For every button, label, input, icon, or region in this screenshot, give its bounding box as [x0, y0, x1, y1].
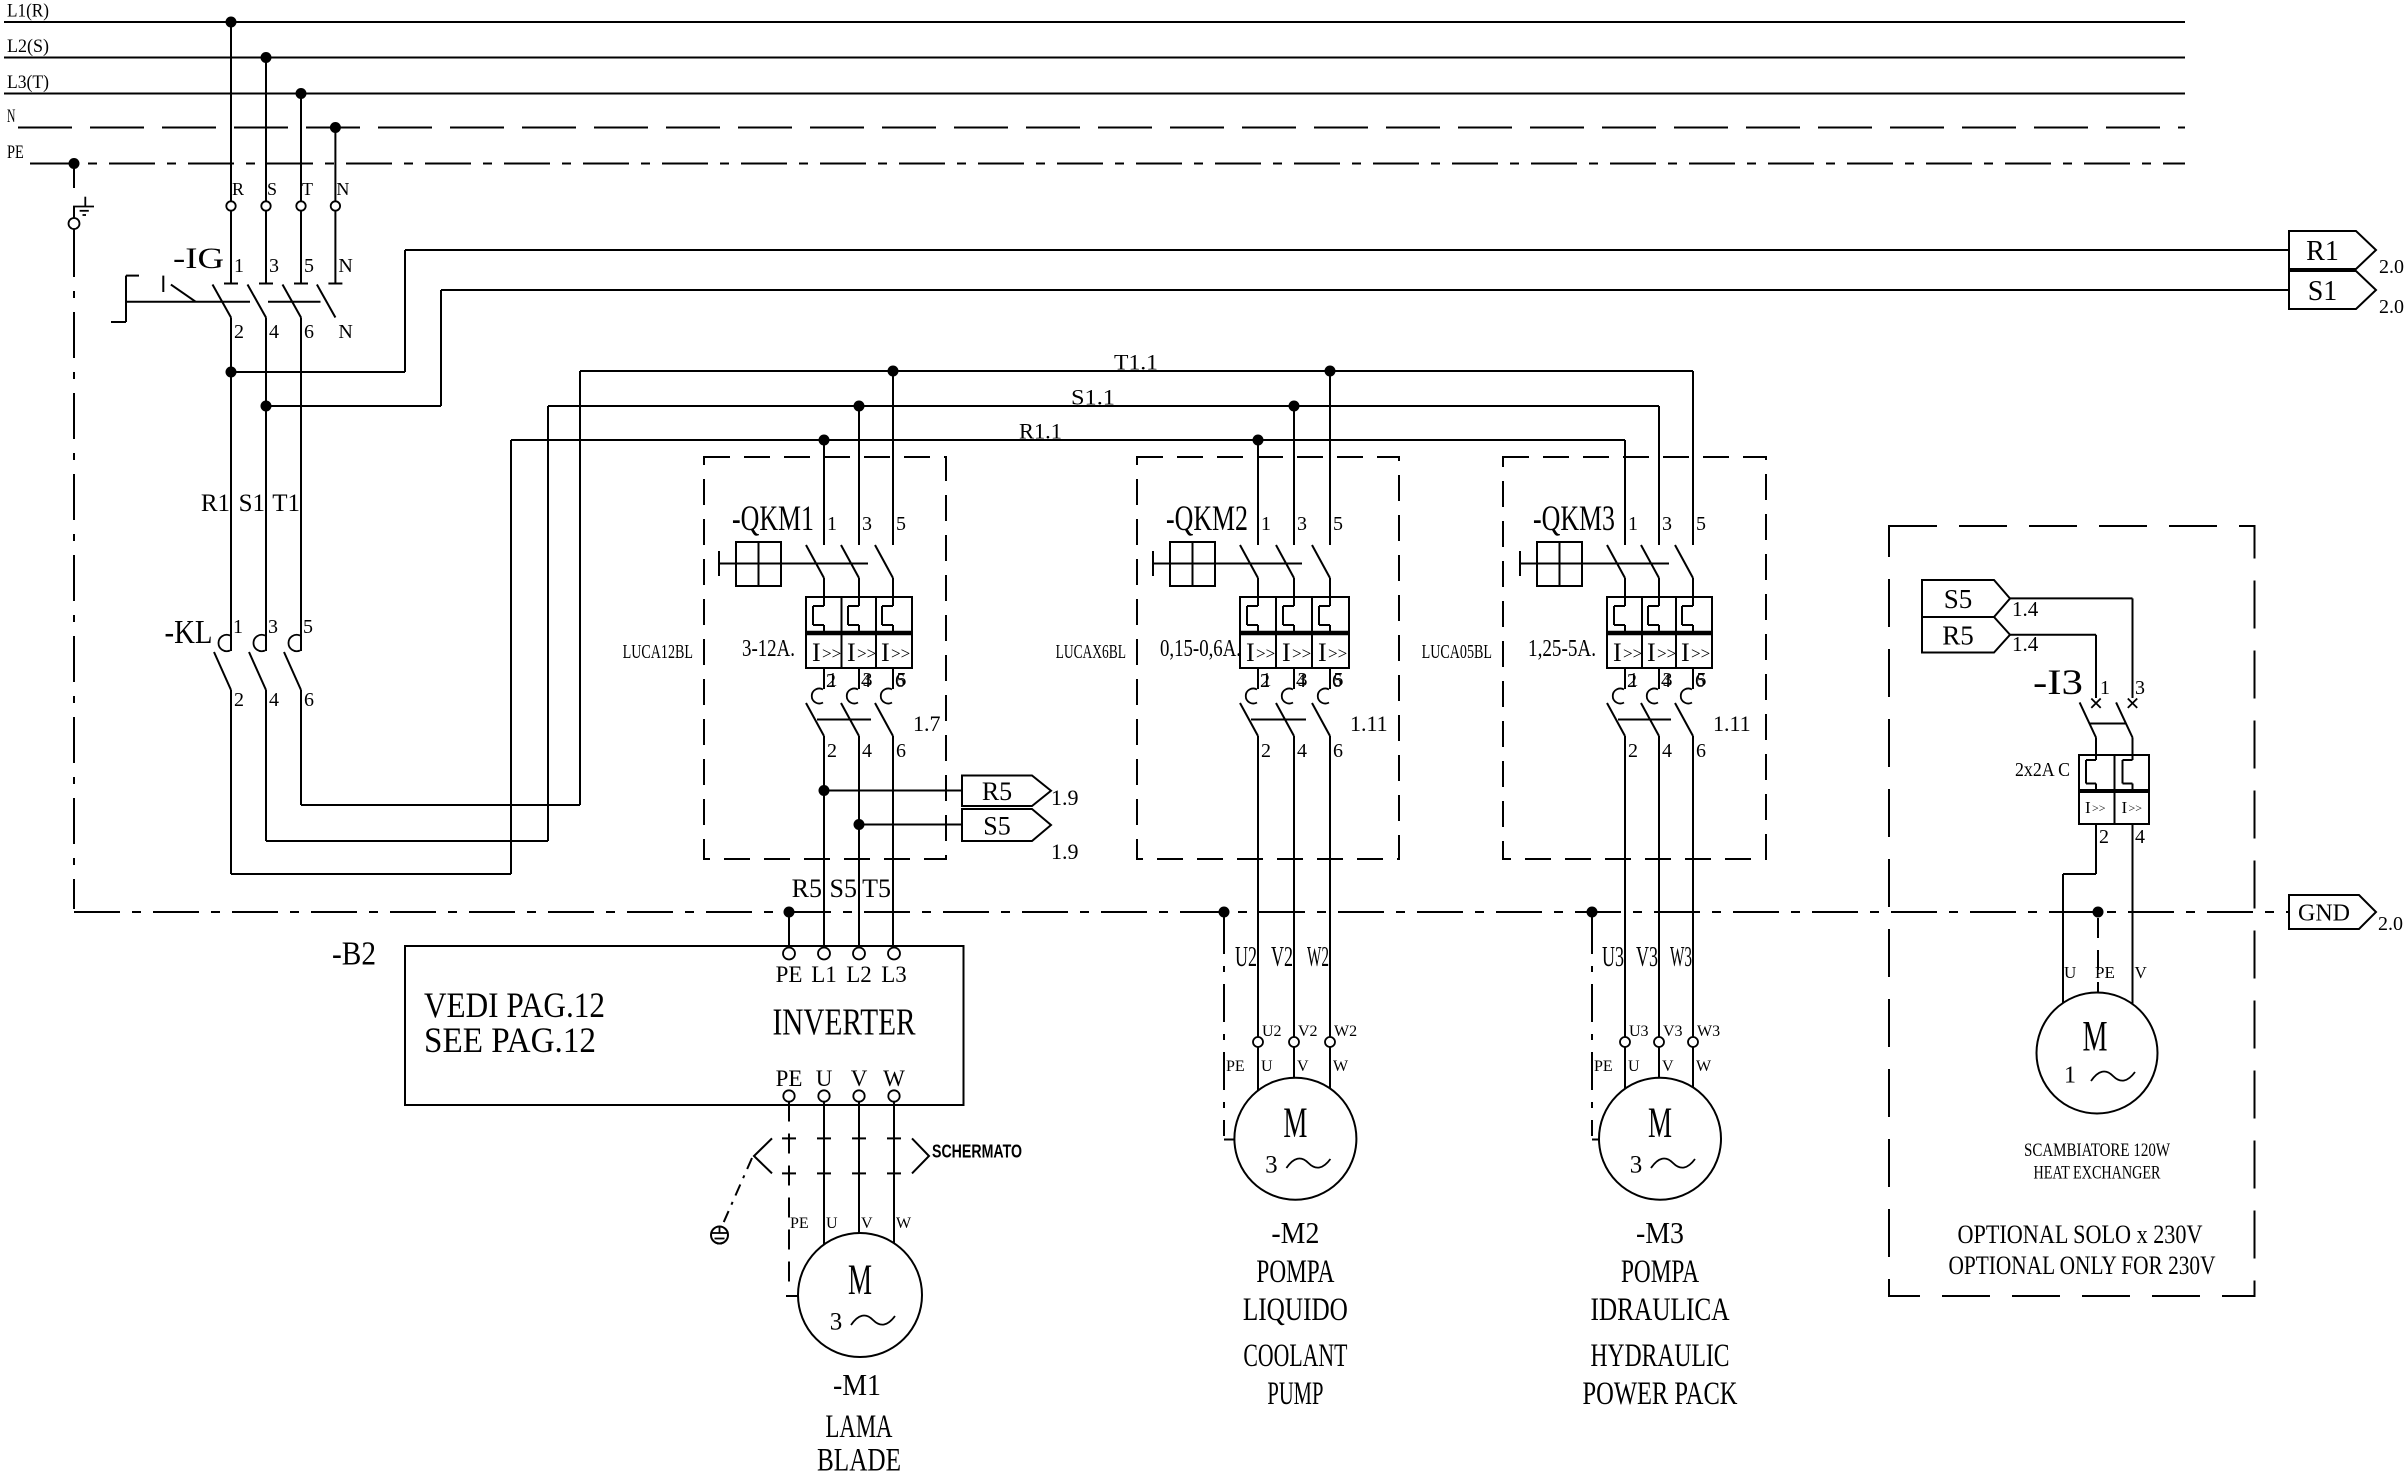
svg-text:U: U	[826, 1215, 838, 1232]
svg-text:1: 1	[234, 255, 244, 277]
svg-text:>>: >>	[2092, 801, 2106, 815]
svg-text:4: 4	[1662, 740, 1672, 762]
svg-text:M: M	[848, 1257, 872, 1304]
svg-text:S5: S5	[983, 811, 1010, 840]
svg-text:N: N	[338, 255, 352, 277]
svg-text:1: 1	[828, 669, 838, 691]
svg-text:LIQUIDO: LIQUIDO	[1243, 1292, 1348, 1328]
svg-text:5: 5	[1696, 513, 1706, 535]
svg-text:2: 2	[2099, 826, 2109, 848]
svg-text:LUCA05BL: LUCA05BL	[1422, 641, 1492, 663]
svg-text:2.0: 2.0	[2379, 296, 2404, 318]
svg-text:L3(T): L3(T)	[7, 72, 49, 93]
svg-text:1: 1	[827, 513, 837, 535]
svg-text:I: I	[1318, 638, 1327, 667]
svg-text:3: 3	[1265, 1152, 1278, 1179]
svg-text:6: 6	[304, 321, 314, 343]
svg-text:4: 4	[1297, 740, 1307, 762]
svg-text:I: I	[1282, 638, 1291, 667]
svg-text:2: 2	[1628, 740, 1638, 762]
svg-text:5: 5	[303, 616, 313, 638]
svg-text:PE: PE	[776, 962, 803, 987]
svg-text:-M2: -M2	[1271, 1215, 1319, 1250]
svg-text:COOLANT: COOLANT	[1243, 1338, 1347, 1374]
svg-text:N: N	[336, 179, 349, 199]
svg-text:T5: T5	[862, 874, 891, 903]
svg-text:1.9: 1.9	[1051, 839, 1079, 864]
svg-text:5: 5	[897, 669, 907, 691]
svg-text:-M1: -M1	[833, 1367, 881, 1402]
svg-text:2: 2	[234, 321, 244, 343]
svg-text:V3: V3	[1663, 1023, 1683, 1040]
svg-text:3-12A.: 3-12A.	[742, 636, 795, 662]
svg-text:I: I	[847, 638, 856, 667]
svg-text:L1: L1	[811, 962, 837, 987]
svg-text:PE: PE	[7, 142, 24, 163]
svg-text:PUMP: PUMP	[1267, 1376, 1323, 1412]
svg-text:N: N	[338, 321, 352, 343]
svg-text:V: V	[1662, 1058, 1674, 1075]
svg-text:1: 1	[1629, 669, 1639, 691]
svg-text:1: 1	[2064, 1063, 2076, 1089]
svg-text:GND: GND	[2298, 901, 2350, 927]
svg-text:SCAMBIATORE 120W: SCAMBIATORE 120W	[2024, 1140, 2170, 1161]
svg-text:R: R	[232, 179, 244, 199]
svg-text:LAMA: LAMA	[826, 1409, 893, 1445]
svg-text:-M3: -M3	[1636, 1215, 1684, 1250]
svg-text:1,25-5A.: 1,25-5A.	[1528, 636, 1596, 662]
svg-text:U: U	[1261, 1058, 1273, 1075]
svg-text:1.7: 1.7	[913, 711, 941, 736]
svg-text:PE: PE	[2095, 963, 2115, 982]
svg-text:VEDI PAG.12: VEDI PAG.12	[424, 985, 605, 1025]
svg-text:1: 1	[1261, 513, 1271, 535]
svg-text:1.11: 1.11	[1713, 711, 1751, 736]
svg-text:3: 3	[1297, 513, 1307, 535]
svg-text:W: W	[896, 1215, 912, 1232]
svg-text:POMPA: POMPA	[1621, 1254, 1699, 1290]
svg-text:3: 3	[1663, 669, 1673, 691]
svg-text:SCHERMATO: SCHERMATO	[932, 1142, 1022, 1162]
svg-text:5: 5	[1334, 669, 1344, 691]
svg-text:3: 3	[863, 669, 873, 691]
svg-text:M: M	[1648, 1100, 1672, 1147]
svg-text:W3: W3	[1670, 942, 1692, 973]
svg-text:1: 1	[233, 616, 243, 638]
svg-text:I: I	[2122, 798, 2128, 817]
svg-text:2: 2	[234, 689, 244, 711]
svg-text:PE: PE	[790, 1215, 809, 1232]
svg-text:T1: T1	[272, 490, 300, 517]
svg-text:>>: >>	[857, 644, 876, 663]
svg-text:OPTIONAL ONLY FOR 230V: OPTIONAL ONLY FOR 230V	[1949, 1251, 2216, 1280]
svg-text:4: 4	[269, 321, 279, 343]
svg-text:1.4: 1.4	[2012, 597, 2039, 621]
svg-text:U: U	[816, 1066, 833, 1091]
svg-text:LUCAX6BL: LUCAX6BL	[1056, 641, 1126, 663]
svg-text:-QKM1: -QKM1	[732, 498, 814, 538]
svg-text:I: I	[881, 638, 890, 667]
svg-text:V3: V3	[1636, 942, 1658, 973]
svg-text:V: V	[861, 1215, 873, 1232]
svg-text:2: 2	[827, 740, 837, 762]
svg-text:V2: V2	[1271, 942, 1293, 973]
svg-text:4: 4	[2135, 826, 2145, 848]
svg-text:N: N	[7, 106, 16, 127]
svg-text:OPTIONAL SOLO x 230V: OPTIONAL SOLO x 230V	[1958, 1220, 2203, 1249]
svg-text:>>: >>	[1691, 644, 1710, 663]
svg-text:BLADE: BLADE	[817, 1443, 901, 1476]
svg-text:PE: PE	[1226, 1058, 1245, 1075]
svg-text:1.9: 1.9	[1051, 785, 1079, 810]
svg-text:I: I	[1613, 638, 1622, 667]
svg-text:5: 5	[1333, 513, 1343, 535]
svg-text:6: 6	[1333, 740, 1343, 762]
svg-text:5: 5	[896, 513, 906, 535]
svg-text:3: 3	[269, 255, 279, 277]
svg-text:L2(S): L2(S)	[7, 36, 49, 57]
svg-text:2: 2	[1261, 740, 1271, 762]
svg-text:L3: L3	[881, 962, 907, 987]
svg-text:W2: W2	[1307, 942, 1329, 973]
svg-text:W3: W3	[1697, 1023, 1720, 1040]
svg-text:>>: >>	[2129, 801, 2143, 815]
svg-text:U3: U3	[1629, 1023, 1649, 1040]
svg-text:-I3: -I3	[2033, 662, 2083, 702]
svg-text:6: 6	[304, 689, 314, 711]
svg-text:6: 6	[1696, 740, 1706, 762]
svg-text:V: V	[851, 1066, 868, 1091]
svg-text:-B2: -B2	[332, 936, 376, 973]
svg-text:R5: R5	[1942, 620, 1974, 650]
svg-text:S1: S1	[239, 490, 265, 517]
svg-text:L1(R): L1(R)	[7, 1, 49, 22]
svg-text:M: M	[2083, 1014, 2108, 1061]
svg-text:>>: >>	[1657, 644, 1676, 663]
svg-text:SEE PAG.12: SEE PAG.12	[424, 1020, 596, 1060]
svg-text:U: U	[2064, 963, 2076, 982]
svg-text:-KL: -KL	[165, 614, 213, 651]
svg-text:POMPA: POMPA	[1256, 1254, 1334, 1290]
svg-text:R5: R5	[982, 777, 1012, 806]
svg-text:R1.1: R1.1	[1019, 419, 1062, 444]
svg-text:1: 1	[1262, 669, 1272, 691]
svg-text:5: 5	[304, 255, 314, 277]
svg-text:V: V	[1297, 1058, 1309, 1075]
svg-text:-IG: -IG	[173, 242, 224, 275]
svg-text:W: W	[883, 1066, 905, 1091]
svg-text:3: 3	[268, 616, 278, 638]
svg-text:3: 3	[862, 513, 872, 535]
svg-text:W2: W2	[1334, 1023, 1357, 1040]
svg-text:T: T	[302, 179, 313, 199]
svg-text:V2: V2	[1298, 1023, 1318, 1040]
svg-text:U: U	[1628, 1058, 1640, 1075]
svg-text:R5: R5	[792, 874, 822, 903]
svg-text:>>: >>	[822, 644, 841, 663]
svg-text:0,15-0,6A.: 0,15-0,6A.	[1160, 636, 1241, 662]
svg-text:T1.1: T1.1	[1114, 350, 1158, 375]
svg-text:3: 3	[2135, 677, 2145, 699]
svg-text:6: 6	[896, 740, 906, 762]
svg-text:L2: L2	[846, 962, 872, 987]
svg-text:1.11: 1.11	[1350, 711, 1388, 736]
svg-text:>>: >>	[1623, 644, 1642, 663]
svg-text:V: V	[2135, 963, 2148, 982]
svg-text:IDRAULICA: IDRAULICA	[1591, 1292, 1730, 1328]
svg-text:2.0: 2.0	[2378, 913, 2403, 935]
svg-text:3: 3	[1662, 513, 1672, 535]
svg-text:U2: U2	[1262, 1023, 1282, 1040]
svg-text:4: 4	[269, 689, 279, 711]
svg-text:U3: U3	[1602, 942, 1624, 973]
svg-text:PE: PE	[776, 1066, 803, 1091]
svg-text:W: W	[1333, 1058, 1349, 1075]
svg-text:>>: >>	[1256, 644, 1275, 663]
svg-text:I: I	[2085, 798, 2091, 817]
svg-text:1: 1	[1628, 513, 1638, 535]
svg-text:I: I	[812, 638, 821, 667]
svg-text:3: 3	[830, 1309, 843, 1336]
svg-text:-QKM2: -QKM2	[1166, 498, 1248, 538]
svg-text:R1: R1	[201, 490, 230, 517]
svg-text:HYDRAULIC: HYDRAULIC	[1591, 1338, 1730, 1374]
svg-text:PE: PE	[1594, 1058, 1613, 1075]
svg-text:2.0: 2.0	[2379, 256, 2404, 278]
svg-text:I: I	[1681, 638, 1690, 667]
svg-text:S1: S1	[2308, 276, 2338, 307]
svg-text:HEAT EXCHANGER: HEAT EXCHANGER	[2034, 1163, 2161, 1184]
svg-text:W: W	[1696, 1058, 1712, 1075]
svg-text:I: I	[1246, 638, 1255, 667]
svg-text:4: 4	[862, 740, 872, 762]
svg-text:S5: S5	[830, 874, 857, 903]
svg-text:LUCA12BL: LUCA12BL	[623, 641, 693, 663]
svg-text:S: S	[267, 179, 277, 199]
svg-text:>>: >>	[1292, 644, 1311, 663]
svg-text:INVERTER: INVERTER	[773, 1002, 916, 1044]
svg-text:S1.1: S1.1	[1071, 385, 1115, 410]
svg-text:U2: U2	[1235, 942, 1257, 973]
svg-text:1: 1	[2100, 677, 2110, 699]
svg-text:POWER PACK: POWER PACK	[1583, 1376, 1738, 1412]
svg-text:I: I	[1647, 638, 1656, 667]
svg-text:S5: S5	[1944, 584, 1973, 614]
svg-text:M: M	[1283, 1100, 1307, 1147]
svg-text:-QKM3: -QKM3	[1533, 498, 1615, 538]
svg-text:R1: R1	[2306, 236, 2339, 267]
svg-text:>>: >>	[891, 644, 910, 663]
svg-text:3: 3	[1630, 1152, 1643, 1179]
svg-text:5: 5	[1697, 669, 1707, 691]
svg-text:3: 3	[1298, 669, 1308, 691]
svg-text:>>: >>	[1328, 644, 1347, 663]
svg-text:2x2A C: 2x2A C	[2015, 759, 2070, 781]
